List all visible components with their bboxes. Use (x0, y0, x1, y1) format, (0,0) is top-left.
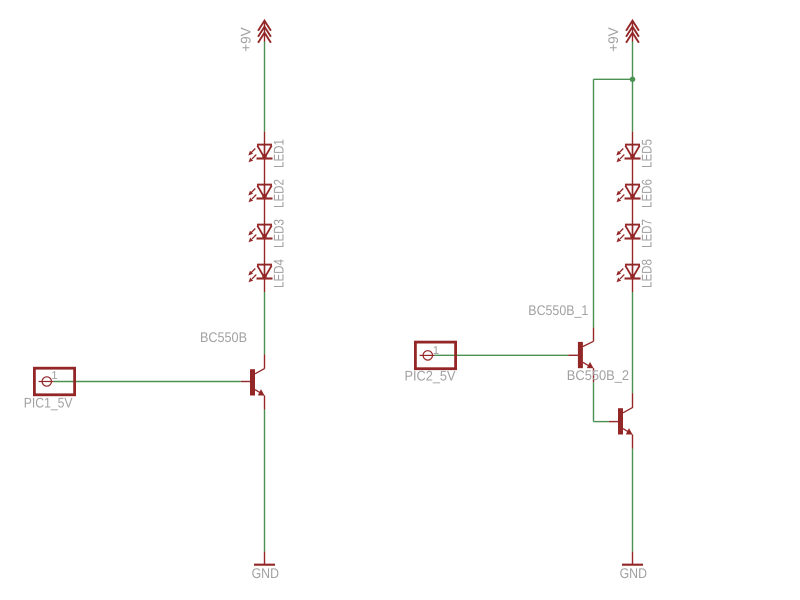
svg-text:BC550B_2: BC550B_2 (567, 367, 629, 383)
svg-text:GND: GND (252, 565, 279, 581)
svg-text:1: 1 (51, 370, 57, 382)
svg-text:LED2: LED2 (270, 179, 286, 208)
svg-text:LED6: LED6 (638, 179, 654, 208)
svg-text:PIC1_5V: PIC1_5V (24, 395, 73, 411)
svg-text:LED4: LED4 (270, 259, 286, 288)
svg-text:+9V: +9V (605, 27, 621, 52)
svg-text:LED5: LED5 (638, 139, 654, 168)
svg-text:1: 1 (433, 345, 439, 357)
svg-text:+9V: +9V (237, 27, 253, 52)
svg-text:BC550B: BC550B (200, 329, 247, 345)
svg-text:GND: GND (620, 565, 647, 581)
svg-text:BC550B_1: BC550B_1 (528, 302, 588, 318)
svg-text:LED3: LED3 (270, 219, 286, 248)
svg-text:LED1: LED1 (270, 139, 286, 168)
svg-text:LED8: LED8 (638, 259, 654, 288)
svg-text:PIC2_5V: PIC2_5V (405, 368, 457, 384)
svg-text:LED7: LED7 (638, 219, 654, 248)
